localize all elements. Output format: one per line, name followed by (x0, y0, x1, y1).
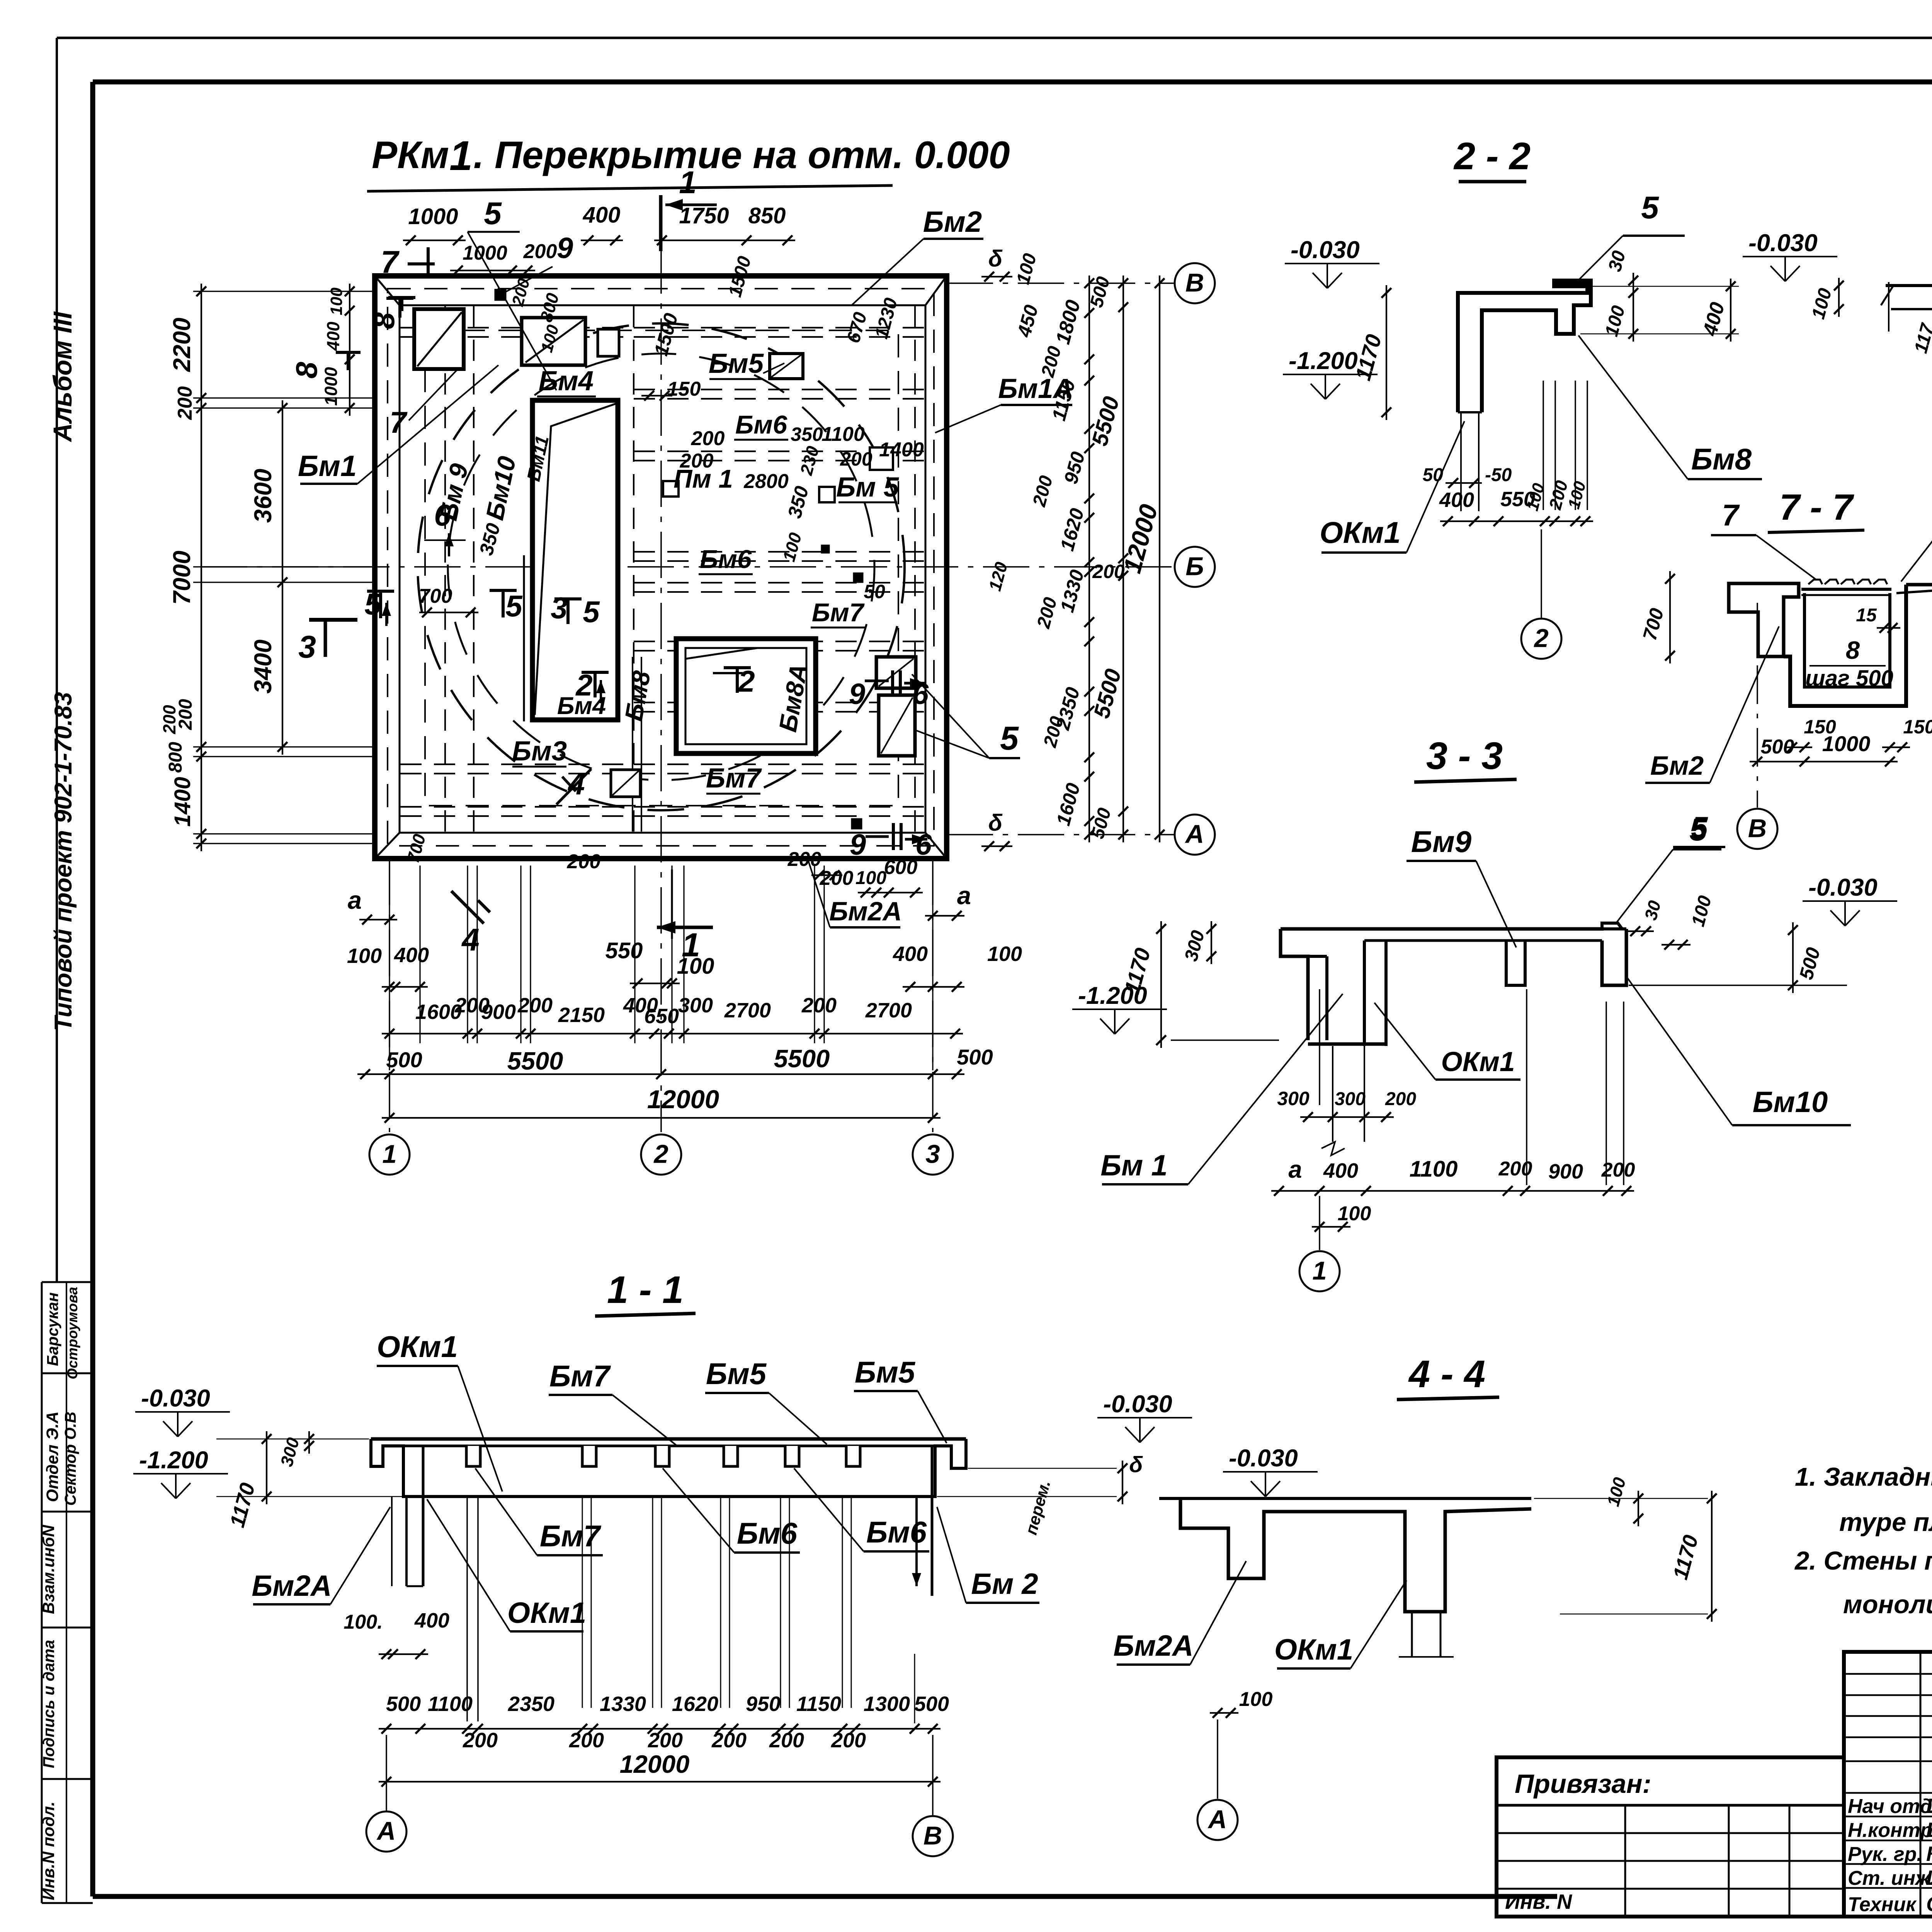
svg-text:1000: 1000 (321, 367, 341, 406)
svg-text:1300: 1300 (864, 1692, 910, 1716)
svg-text:200: 200 (831, 1729, 866, 1752)
svg-text:ОКм1: ОКм1 (1320, 515, 1401, 549)
plan opening top-left B (522, 318, 585, 365)
svg-text:100: 100 (1523, 481, 1548, 513)
svg-text:Бм 1: Бм 1 (1100, 1149, 1167, 1182)
svg-text:450: 450 (1013, 303, 1042, 340)
svg-text:400: 400 (1439, 488, 1474, 512)
section 3-3 top slab (1281, 927, 1604, 931)
svg-text:ОКм1: ОКм1 (507, 1597, 586, 1629)
svg-text:1620: 1620 (1056, 506, 1088, 553)
svg-text:-0.030: -0.030 (1808, 874, 1878, 901)
svg-text:300: 300 (277, 1435, 303, 1469)
svg-text:1170: 1170 (1119, 946, 1155, 997)
svg-text:400: 400 (583, 202, 621, 228)
svg-text:200: 200 (1040, 714, 1068, 750)
svg-text:600: 600 (884, 856, 918, 879)
svg-text:5: 5 (1641, 190, 1659, 225)
svg-text:1330: 1330 (600, 1692, 646, 1716)
svg-text:500: 500 (1087, 806, 1115, 841)
bottom chain row4 (357, 1073, 964, 1075)
svg-text:Бм7: Бм7 (812, 598, 865, 627)
svg-text:100: 100 (1603, 1475, 1630, 1509)
svg-text:150: 150 (1903, 716, 1932, 738)
svg-text:1230: 1230 (871, 296, 902, 341)
plan small sq E bottom (611, 770, 640, 797)
svg-text:А: А (1185, 820, 1204, 849)
svg-text:Альбом III: Альбом III (48, 311, 77, 442)
svg-text:δ: δ (988, 246, 1003, 272)
svg-text:1000: 1000 (408, 204, 458, 229)
2-2 axis circle 2 (1541, 529, 1542, 618)
svg-text:2: 2 (737, 664, 755, 698)
svg-text:8: 8 (1846, 636, 1860, 664)
svg-text:Бм5: Бм5 (706, 1357, 767, 1391)
svg-text:2800: 2800 (743, 470, 789, 493)
5-5 dims (1838, 278, 1840, 317)
svg-text:3: 3 (298, 629, 316, 665)
4-4 foot below (1411, 1612, 1413, 1657)
2-2 dim 1170 (1386, 285, 1387, 420)
svg-text:7000: 7000 (168, 551, 196, 605)
svg-text:1: 1 (1312, 1257, 1327, 1286)
svg-text:200: 200 (1029, 473, 1057, 509)
svg-text:100: 100 (1338, 1202, 1371, 1225)
svg-text:100: 100 (1013, 251, 1041, 286)
svg-text:1600: 1600 (1052, 781, 1084, 828)
svg-text:-0.030: -0.030 (1229, 1445, 1298, 1472)
1-1 rib notches (466, 1446, 480, 1466)
1-1 axis circles (386, 1735, 387, 1811)
svg-text:Рук. гр.: Рук. гр. (1848, 1843, 1922, 1866)
svg-text:950: 950 (746, 1692, 781, 1716)
section 4-4 profile (1159, 1497, 1531, 1500)
svg-text:5: 5 (484, 196, 502, 231)
svg-text:Бм2: Бм2 (923, 206, 982, 238)
plan vertical dashed lines (444, 306, 446, 832)
bottom axis circles (389, 859, 390, 1132)
svg-text:Бм7: Бм7 (540, 1519, 602, 1553)
svg-text:200: 200 (711, 1729, 747, 1752)
svg-text:150: 150 (667, 378, 701, 400)
svg-text:50: 50 (864, 581, 885, 602)
svg-text:9: 9 (850, 828, 866, 861)
svg-text:200: 200 (691, 427, 725, 450)
svg-text:117: 117 (1911, 321, 1932, 355)
svg-text:200: 200 (801, 994, 837, 1017)
section mark 1 bottom (657, 926, 713, 929)
svg-text:1170: 1170 (226, 1480, 260, 1530)
svg-text:400: 400 (1323, 1159, 1358, 1182)
plan black embed squares (495, 289, 506, 301)
svg-text:туре плиты покрытия.: туре плиты покрытия. (1839, 1508, 1932, 1537)
svg-text:Привязан:: Привязан: (1515, 1769, 1651, 1799)
svg-text:Бм9: Бм9 (1411, 825, 1472, 859)
svg-text:200: 200 (1601, 1159, 1635, 1181)
plan inner dashed rect (425, 330, 898, 806)
plan opening top-left A (414, 309, 464, 369)
svg-text:Инв. N: Инв. N (1505, 1890, 1572, 1913)
title block privyazan box (1497, 1757, 1844, 1917)
svg-text:7 - 7: 7 - 7 (1779, 487, 1854, 528)
7-7 trough inner (1804, 593, 1890, 687)
svg-text:500: 500 (957, 1045, 993, 1069)
svg-text:500: 500 (1795, 945, 1825, 982)
left margin cells (41, 1282, 43, 1903)
1-1 bottom chain (379, 1728, 940, 1730)
svg-text:Шмандий: Шмандий (1926, 1866, 1932, 1889)
svg-text:Б: Б (1185, 552, 1204, 581)
svg-text:ОКм1: ОКм1 (1441, 1047, 1515, 1077)
svg-text:900: 900 (1548, 1160, 1583, 1183)
svg-text:800: 800 (165, 742, 186, 773)
svg-text:1330: 1330 (1056, 567, 1088, 614)
svg-text:100: 100 (1239, 1688, 1273, 1711)
svg-text:550: 550 (605, 938, 643, 963)
svg-text:5: 5 (1000, 720, 1019, 757)
svg-text:ОКм1: ОКм1 (377, 1330, 458, 1364)
right chain dense (1088, 276, 1090, 842)
svg-text:2200: 2200 (168, 318, 196, 372)
svg-text:1620: 1620 (672, 1692, 718, 1716)
svg-text:200: 200 (1385, 1089, 1416, 1109)
svg-text:9: 9 (557, 232, 573, 265)
svg-text:5: 5 (1689, 812, 1708, 847)
svg-text:100: 100 (779, 531, 806, 564)
svg-text:a: a (348, 886, 362, 914)
svg-text:монолитного варианта.: монолитного варианта. (1843, 1590, 1932, 1619)
svg-text:1400: 1400 (879, 439, 924, 461)
svg-text:2700: 2700 (724, 999, 771, 1022)
svg-text:6: 6 (434, 498, 451, 532)
svg-text:200: 200 (1498, 1158, 1532, 1180)
svg-text:шаг 500: шаг 500 (1805, 666, 1893, 691)
svg-text:Отдел Э.А: Отдел Э.А (43, 1412, 62, 1502)
svg-text:1100: 1100 (1410, 1156, 1458, 1182)
plan small sq D (598, 329, 619, 356)
svg-text:Инв.N подл.: Инв.N подл. (39, 1801, 58, 1900)
section 5-5 profile (1886, 284, 1932, 287)
svg-text:850: 850 (748, 203, 786, 228)
plan tall opening (stair) (532, 400, 618, 720)
3-3 right end wall (1602, 929, 1626, 985)
svg-text:-50: -50 (1485, 465, 1512, 485)
svg-text:2: 2 (653, 1140, 668, 1169)
1-1 right wall below (915, 1497, 918, 1586)
3-3 top right embed bump (1602, 923, 1626, 929)
svg-text:200: 200 (769, 1729, 804, 1752)
svg-text:5: 5 (583, 595, 600, 629)
svg-text:200: 200 (463, 1729, 498, 1752)
svg-text:7: 7 (381, 245, 400, 280)
svg-text:Бм7: Бм7 (706, 763, 762, 794)
svg-text:1 - 1: 1 - 1 (607, 1268, 684, 1311)
svg-text:2. Стены подземной части: 2. Стены подземной части условно показан… (1794, 1546, 1932, 1575)
svg-text:Шейко: Шейко (1926, 1794, 1932, 1818)
svg-text:5500: 5500 (774, 1044, 830, 1073)
svg-text:500: 500 (386, 1692, 421, 1716)
svg-text:1170: 1170 (1350, 332, 1386, 383)
bottom chain row3 (382, 1033, 963, 1034)
3-3 dims below foot (1300, 1116, 1394, 1118)
svg-text:1750: 1750 (679, 203, 729, 228)
plan small open squares (870, 447, 893, 470)
plan partition double line (632, 657, 633, 832)
svg-text:Бм5: Бм5 (855, 1355, 916, 1389)
3-3 below-cut wall lines (1332, 1046, 1333, 1142)
section mark 1 top (659, 195, 663, 251)
svg-text:3600: 3600 (250, 469, 277, 523)
svg-text:5: 5 (505, 589, 523, 623)
1-1 left wall below (405, 1497, 408, 1586)
section 2-2 profile (1458, 281, 1591, 412)
svg-text:5500: 5500 (507, 1047, 563, 1075)
svg-text:3 - 3: 3 - 3 (1426, 734, 1503, 777)
svg-text:400: 400 (394, 944, 429, 967)
svg-text:2700: 2700 (865, 999, 912, 1022)
plan centerline axis B horizontal (201, 566, 1175, 568)
svg-text:Бм 2: Бм 2 (971, 1568, 1038, 1600)
svg-text:400: 400 (323, 321, 343, 351)
svg-text:950: 950 (1060, 449, 1089, 486)
plan square opening (676, 639, 816, 753)
svg-text:Бм3: Бм3 (512, 736, 567, 767)
svg-text:230: 230 (796, 444, 823, 478)
3-3 middle rib (1506, 940, 1525, 985)
3-3 foot (1308, 1043, 1386, 1046)
main frame border (93, 80, 1932, 85)
svg-text:В: В (1185, 269, 1204, 298)
svg-text:400: 400 (1699, 300, 1729, 338)
svg-text:1500: 1500 (650, 311, 682, 358)
bottom overall 12000 (382, 1117, 940, 1119)
left chain inner (282, 400, 283, 755)
dim 1750 850 (654, 240, 795, 241)
svg-text:-0.030: -0.030 (1291, 236, 1360, 264)
svg-text:2: 2 (1533, 624, 1548, 653)
svg-text:А: А (1207, 1805, 1227, 1834)
4-4 axis circle A (1217, 1719, 1218, 1799)
svg-text:Бм2А: Бм2А (829, 896, 902, 926)
3-3 wall 2 (1363, 940, 1366, 1046)
svg-text:200: 200 (680, 450, 714, 472)
2-2 bottom dims (1446, 482, 1482, 484)
dim 1000 top (403, 240, 466, 241)
svg-text:100.: 100. (344, 1611, 383, 1633)
svg-text:200: 200 (174, 386, 196, 420)
svg-text:200: 200 (517, 994, 553, 1017)
svg-text:1150: 1150 (796, 1692, 841, 1716)
svg-text:300: 300 (1277, 1088, 1310, 1109)
svg-text:Бм8: Бм8 (619, 668, 656, 723)
svg-text:100: 100 (987, 942, 1022, 966)
svg-text:δ: δ (988, 810, 1003, 836)
title block names table (1844, 1652, 1932, 1917)
plan right small squares with diagonals (876, 657, 916, 688)
svg-text:Слатенко: Слатенко (1926, 1893, 1932, 1916)
svg-text:150: 150 (1804, 716, 1836, 738)
svg-text:Остроумова: Остроумова (65, 1287, 80, 1379)
svg-text:350: 350 (791, 423, 823, 445)
svg-text:Бм4: Бм4 (539, 366, 594, 396)
svg-text:1100: 1100 (821, 423, 865, 446)
svg-text:12000: 12000 (1118, 501, 1163, 576)
svg-text:Бм5: Бм5 (709, 349, 764, 379)
svg-text:2150: 2150 (558, 1003, 605, 1027)
svg-text:Бм10: Бм10 (1753, 1086, 1828, 1119)
plan inner wall line (400, 305, 925, 833)
7-7 axis circle B (1757, 603, 1758, 808)
svg-text:200: 200 (787, 848, 821, 871)
svg-text:1100: 1100 (428, 1692, 473, 1716)
3-3 axis circle 1 (1319, 1196, 1320, 1250)
svg-text:Бм6: Бм6 (700, 545, 752, 574)
2-2 rebar verticals (1543, 381, 1544, 510)
svg-text:Бм2А: Бм2А (252, 1570, 332, 1602)
axis circles right (947, 282, 1175, 284)
svg-text:400: 400 (414, 1609, 449, 1632)
svg-text:670: 670 (843, 310, 871, 345)
3-3 rebar verticals (1526, 989, 1527, 1185)
svg-text:100: 100 (327, 287, 346, 315)
sheet thin edge lines (57, 37, 1932, 39)
plan corner chamfers (375, 276, 400, 305)
3-3 left end block (1281, 929, 1308, 1040)
svg-text:12000: 12000 (647, 1085, 719, 1114)
svg-text:a: a (957, 881, 971, 910)
svg-text:Бм8: Бм8 (1691, 442, 1752, 476)
plan outer wall square (375, 276, 947, 859)
svg-text:. Перекрытие на отм. 0.000: . Перекрытие на отм. 0.000 (473, 133, 1010, 176)
svg-text:1: 1 (449, 132, 473, 179)
svg-text:3400: 3400 (250, 639, 277, 694)
svg-text:Сектор О.В: Сектор О.В (61, 1412, 79, 1505)
svg-text:200: 200 (160, 705, 179, 734)
svg-text:300: 300 (1181, 928, 1209, 963)
svg-text:РКм: РКм (372, 133, 449, 176)
svg-text:2 - 2: 2 - 2 (1453, 134, 1531, 177)
svg-text:В: В (1748, 814, 1767, 843)
svg-text:-1.200: -1.200 (139, 1447, 208, 1474)
svg-text:ОКм1: ОКм1 (1274, 1633, 1353, 1666)
svg-text:1: 1 (382, 1140, 396, 1169)
svg-text:8: 8 (289, 362, 323, 379)
svg-text:100: 100 (1688, 893, 1716, 929)
svg-text:12000: 12000 (620, 1750, 690, 1778)
svg-text:3: 3 (925, 1140, 940, 1169)
3-3 bottom chain (1271, 1190, 1634, 1192)
svg-text:-1.200: -1.200 (1289, 347, 1358, 374)
section 7-7 profile left block (1729, 583, 1799, 656)
svg-text:1000: 1000 (463, 242, 507, 264)
svg-text:4 - 4: 4 - 4 (1408, 1352, 1485, 1395)
svg-text:5500: 5500 (1087, 394, 1124, 448)
svg-text:Бм1: Бм1 (298, 450, 357, 483)
svg-text:-0.030: -0.030 (141, 1385, 210, 1412)
svg-text:200: 200 (569, 1729, 604, 1752)
svg-text:650: 650 (644, 1005, 679, 1028)
svg-text:8: 8 (367, 312, 401, 329)
svg-text:120: 120 (985, 560, 1012, 593)
svg-text:200: 200 (648, 1729, 683, 1752)
svg-text:1170: 1170 (1669, 1532, 1703, 1582)
svg-text:200: 200 (840, 448, 872, 470)
1-1 rebar pairs below slab (466, 1497, 468, 1721)
svg-text:Бм4: Бм4 (557, 692, 606, 719)
svg-text:15: 15 (1856, 605, 1877, 626)
svg-text:Типовой проект 902-1-70.83: Типовой проект 902-1-70.83 (50, 692, 77, 1031)
svg-text:Кунцевич: Кунцевич (1926, 1842, 1932, 1866)
svg-text:100: 100 (855, 868, 886, 888)
svg-text:В: В (923, 1821, 942, 1850)
svg-text:7: 7 (389, 405, 408, 439)
svg-text:200: 200 (567, 850, 601, 873)
plan small rect C (Bm5) (770, 354, 803, 379)
svg-text:Бм2А: Бм2А (1113, 1629, 1193, 1662)
svg-text:9: 9 (849, 678, 865, 711)
left chain outer (201, 284, 202, 851)
svg-text:350: 350 (475, 521, 505, 558)
svg-text:100: 100 (1808, 286, 1836, 321)
svg-text:-0.030: -0.030 (1103, 1391, 1172, 1418)
svg-text:50: 50 (1423, 465, 1444, 485)
svg-text:200: 200 (1033, 595, 1061, 631)
svg-text:700: 700 (1639, 606, 1668, 643)
2-2 right dims (1633, 273, 1634, 342)
plan wall inner dashed rect (388, 289, 934, 846)
svg-text:700: 700 (419, 585, 452, 607)
svg-text:А: А (376, 1817, 396, 1846)
svg-text:Барсукан: Барсукан (44, 1293, 61, 1366)
svg-text:-0.030: -0.030 (1748, 230, 1818, 257)
svg-text:7: 7 (1722, 498, 1740, 532)
3-3 wall 1 (1325, 956, 1328, 1040)
svg-text:6: 6 (915, 828, 932, 861)
plan hidden beam lines (dashed) (634, 327, 924, 328)
7-7 right ledge (1906, 583, 1932, 587)
svg-text:1800: 1800 (1052, 298, 1085, 347)
svg-text:Бм7: Бм7 (549, 1359, 611, 1393)
svg-text:500: 500 (386, 1048, 422, 1072)
svg-text:δ: δ (1129, 1452, 1143, 1477)
svg-text:Бм10: Бм10 (480, 454, 521, 522)
svg-text:Бм6: Бм6 (737, 1516, 798, 1550)
svg-text:Подпись и дата: Подпись и дата (40, 1640, 58, 1768)
svg-text:Н.контр.: Н.контр. (1848, 1819, 1932, 1842)
7-7 dims below (1750, 761, 1898, 762)
svg-text:Техник: Техник (1848, 1893, 1917, 1916)
section 1-1 slab profile (371, 1437, 966, 1441)
svg-text:400: 400 (893, 942, 928, 966)
plan dashed circles (418, 323, 905, 810)
svg-text:200: 200 (509, 276, 534, 308)
svg-text:100: 100 (347, 944, 382, 968)
svg-text:500: 500 (914, 1692, 949, 1716)
svg-text:Ст. инж.: Ст. инж. (1848, 1867, 1932, 1889)
svg-text:900: 900 (481, 1000, 516, 1024)
svg-text:Бм6: Бм6 (735, 410, 787, 439)
svg-text:300: 300 (1335, 1089, 1366, 1109)
svg-text:3: 3 (551, 591, 567, 625)
svg-text:a: a (1288, 1156, 1302, 1183)
svg-text:1. Закладные изделия (зачерне: 1. Закладные изделия (зачерненные) прива… (1795, 1463, 1932, 1492)
svg-text:Бм1А: Бм1А (998, 374, 1073, 404)
svg-text:Бм 5: Бм 5 (836, 472, 900, 503)
svg-text:1400: 1400 (170, 777, 195, 827)
svg-text:1: 1 (679, 165, 697, 200)
plan centerline axis 2 vertical (660, 247, 662, 1132)
svg-text:перем.: перем. (1022, 1478, 1054, 1537)
